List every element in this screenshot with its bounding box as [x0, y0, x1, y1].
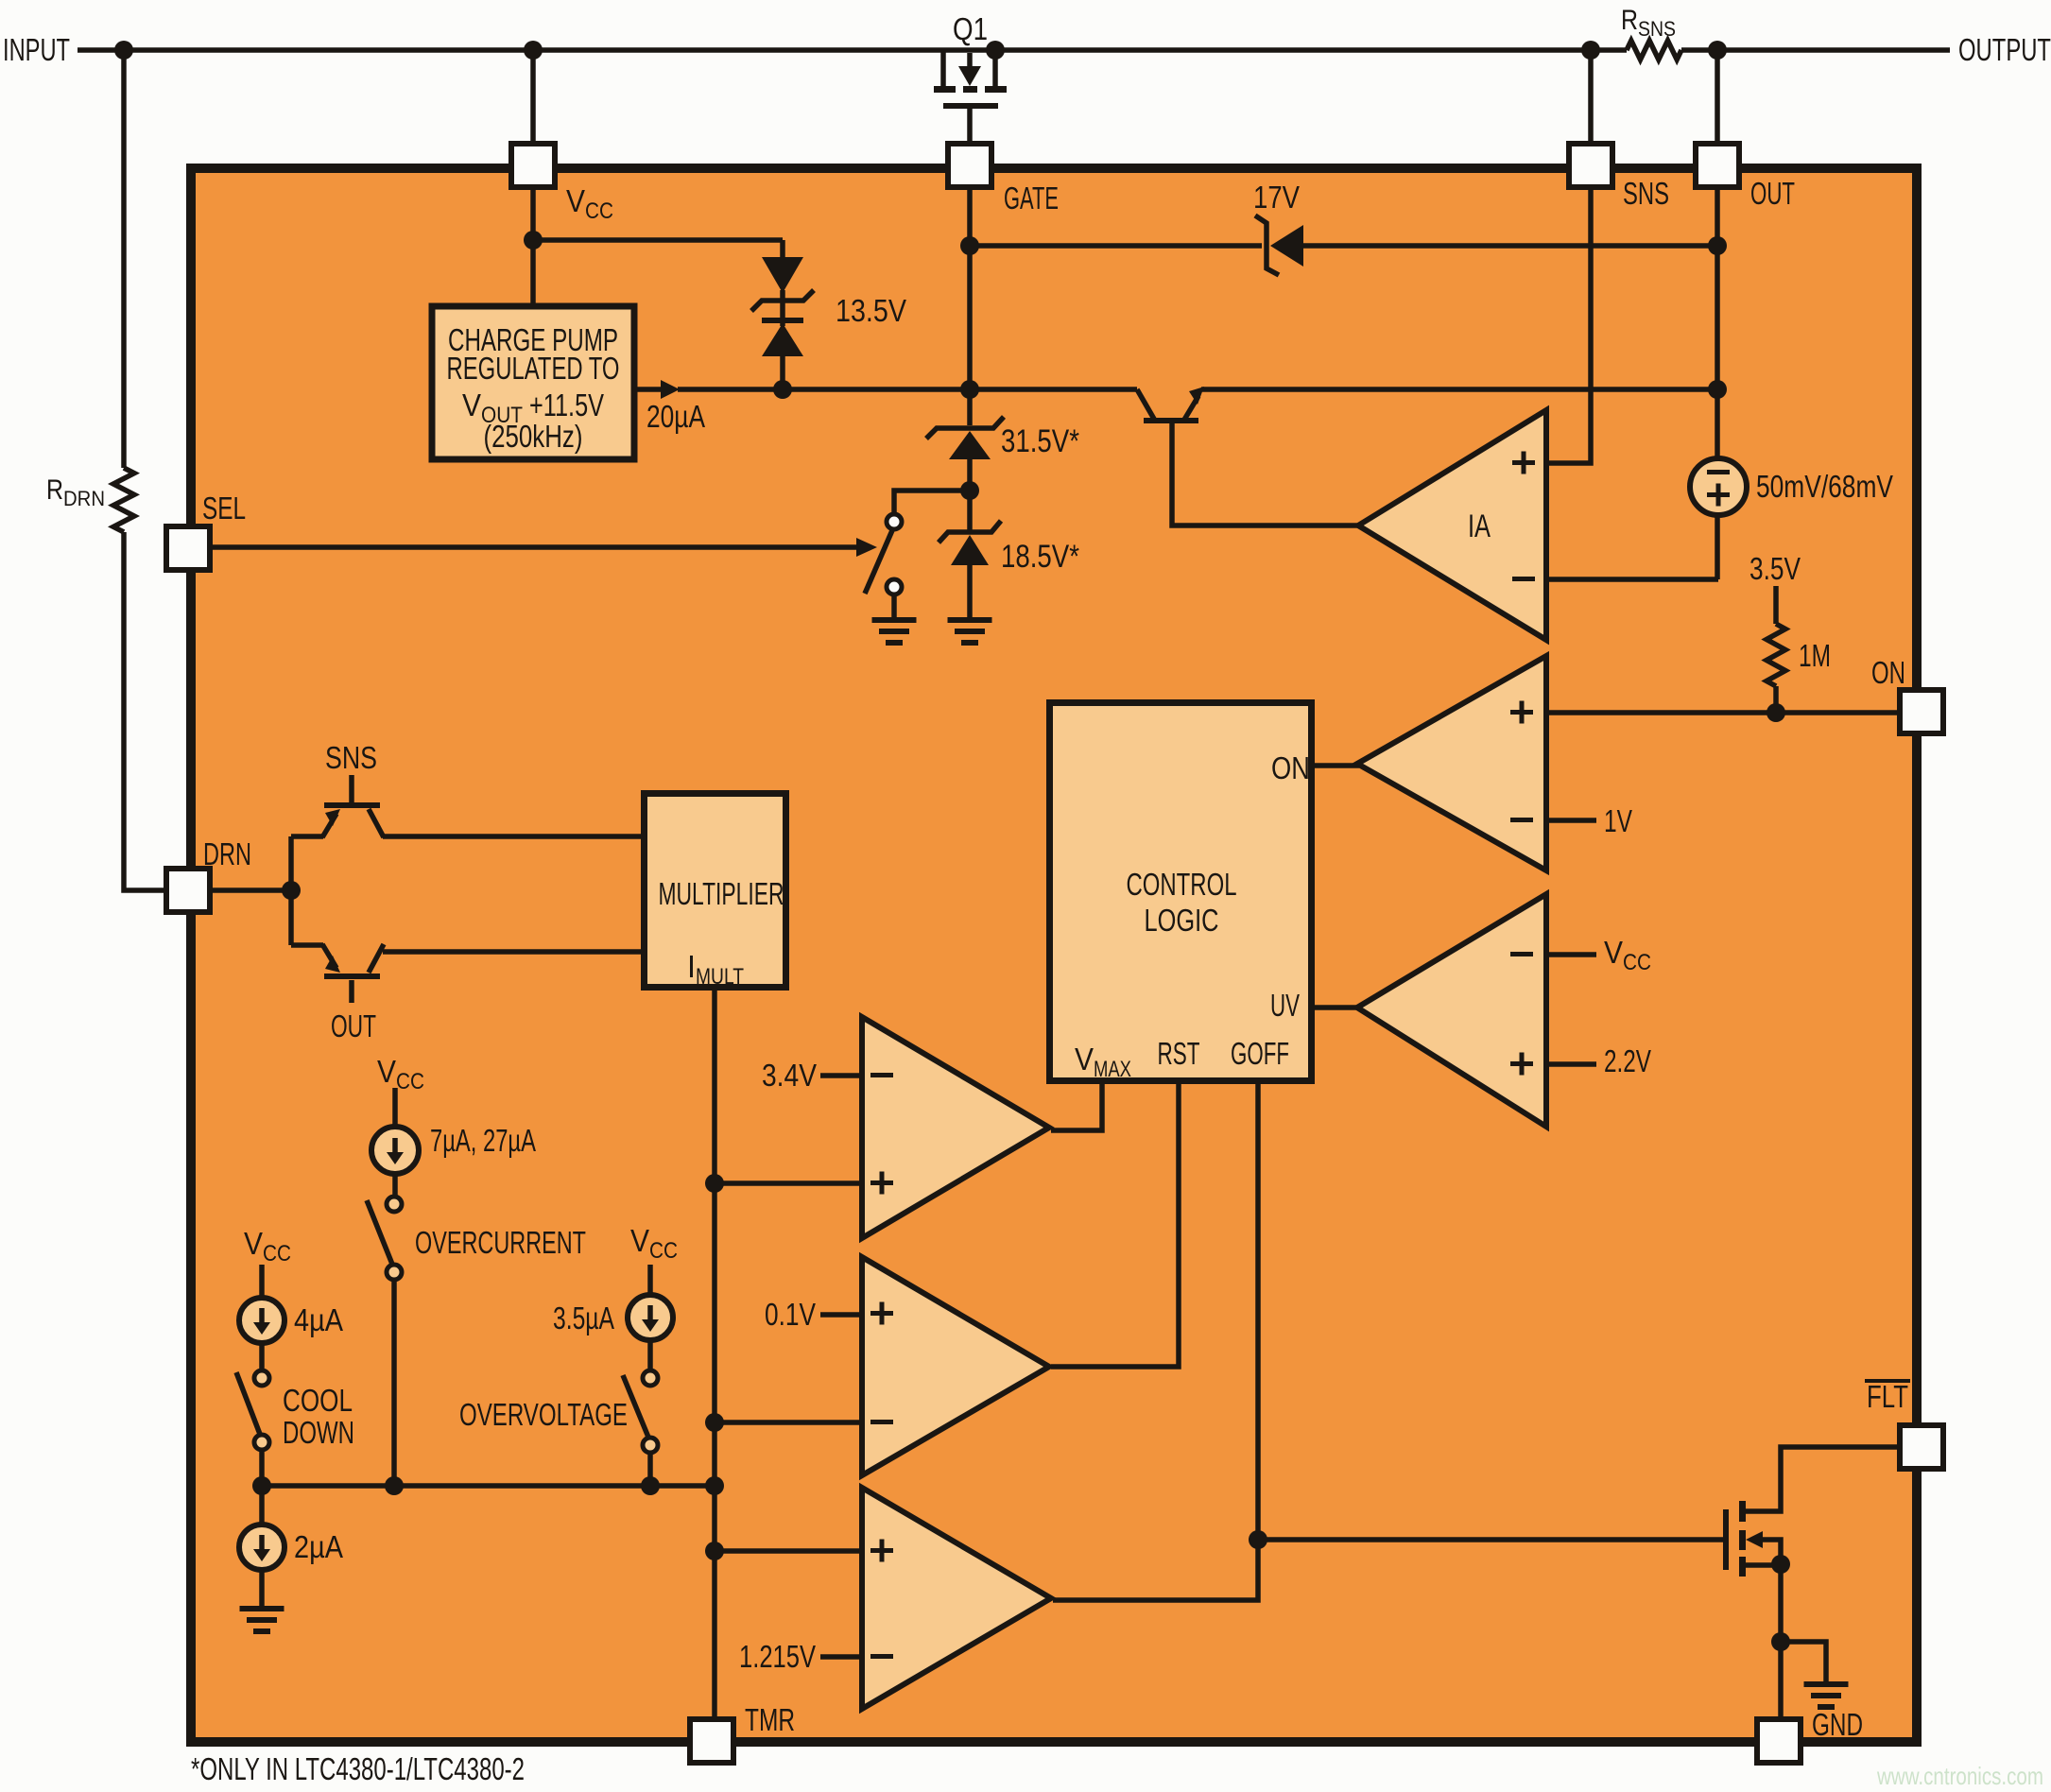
node junction at 756,1252: [705, 1174, 724, 1193]
svg-text:www.cntronics.com: www.cntronics.com: [1876, 1762, 2043, 1790]
svg-text:IA: IA: [1468, 508, 1491, 544]
pin SEL: [166, 526, 210, 570]
svg-text:*ONLY IN LTC4380-1/LTC4380-2: *ONLY IN LTC4380-1/LTC4380-2: [191, 1751, 525, 1786]
zener clamp 13.5V: [762, 257, 803, 293]
charge pump output arrow 20uA: [661, 380, 680, 399]
resistor 1M: [1767, 624, 1785, 686]
node junction at 1026,519: [960, 481, 979, 500]
wire 7uA source branch: [394, 1088, 395, 1486]
node junction at 1817,53: [1708, 41, 1727, 60]
svg-text:1V: 1V: [1604, 803, 1632, 838]
wire timer junction row: [262, 1483, 715, 1489]
svg-text:OUT: OUT: [331, 1008, 376, 1043]
zener 17V: [1255, 215, 1279, 275]
comparator ON: [1357, 656, 1546, 870]
svg-text:31.5V*: 31.5V*: [1001, 423, 1079, 459]
pin SNS: [1569, 144, 1612, 187]
charge pump block: [432, 306, 634, 459]
svg-text:GATE: GATE: [1004, 181, 1059, 215]
pin DRN: [166, 869, 210, 912]
transistor FLT pulldown NMOS: [1723, 1509, 1729, 1570]
wire 3.5V to 1M to ON node: [1773, 586, 1779, 713]
pin TMR: [690, 1719, 733, 1763]
svg-text:2µA: 2µA: [294, 1529, 343, 1564]
wire ON comparator minus 1V: [1546, 818, 1596, 823]
wire FLT pulldown drain to FLT pin: [1746, 1447, 1900, 1511]
node junction at 131,53: [114, 41, 133, 60]
comparator 3.4V Vmax: [862, 1017, 1049, 1238]
ground below 2uA: [240, 1606, 284, 1611]
wire 1.215V comparator inputs: [715, 1551, 862, 1657]
voltage source 50mV/68mV: [1690, 458, 1747, 515]
svg-text:0.1V: 0.1V: [765, 1297, 816, 1332]
svg-text:18.5V*: 18.5V*: [1001, 539, 1079, 575]
node junction at 1817,412: [1708, 380, 1727, 399]
pin GATE: [948, 144, 991, 187]
node junction at 688,1572: [641, 1476, 660, 1495]
pin ON: [1900, 690, 1943, 733]
svg-text:20µA: 20µA: [646, 399, 705, 434]
node junction at 564,53: [524, 41, 543, 60]
wire zener string: [967, 459, 973, 617]
multiplier block: [645, 794, 786, 988]
svg-text:3.5µA: 3.5µA: [553, 1301, 614, 1335]
wire VCC drop: [533, 50, 783, 306]
svg-text:3.4V: 3.4V: [762, 1058, 817, 1093]
wire SNS stub / OUT stub of mirror: [349, 775, 354, 1003]
current source 2uA: [239, 1525, 284, 1570]
node junction at 277,1572: [252, 1476, 271, 1495]
wire switch top contact to zener node: [894, 491, 970, 513]
wire DRN pin to mirror: [210, 887, 291, 893]
wire FLT mosfet body/source: [1746, 1564, 1826, 1719]
IC boundary box LTC4380: [191, 168, 1917, 1742]
svg-text:OUT: OUT: [1750, 176, 1795, 211]
svg-text:1M: 1M: [1799, 638, 1831, 673]
node junction at 756,1641: [705, 1542, 724, 1560]
wire GOFF line: [1053, 1084, 1723, 1600]
pin VCC: [511, 144, 555, 187]
svg-text:TMR: TMR: [745, 1702, 795, 1737]
wire UV comparator plus 2.2V: [1546, 1061, 1596, 1067]
wire top rail INPUT to OUTPUT: [78, 47, 1950, 53]
comparator UV: [1357, 894, 1546, 1127]
pin FLT: [1900, 1425, 1943, 1469]
transistor Q1 external PMOS: [943, 50, 995, 86]
current source 3.5uA: [628, 1295, 673, 1340]
svg-text:CONTROL: CONTROL: [1127, 867, 1237, 902]
wire RST line: [1051, 1084, 1179, 1367]
wire ON comparator plus input / ON pin: [1546, 710, 1900, 715]
node junction at 1026,260: [960, 236, 979, 255]
svg-text:ON: ON: [1871, 655, 1905, 690]
wire 3.4V comparator inputs: [715, 1076, 862, 1183]
wire NPN base to IA output: [1172, 423, 1358, 526]
wire input drop to RDRN and DRN: [124, 50, 167, 890]
svg-text:3.5V: 3.5V: [1749, 551, 1801, 586]
svg-text:13.5V: 13.5V: [836, 293, 906, 328]
node junction at 1331,1629: [1249, 1530, 1267, 1549]
svg-text:FLT: FLT: [1867, 1379, 1908, 1414]
switch overcurrent: [387, 1197, 402, 1212]
wire SNS pin to IA plus input: [1546, 50, 1591, 463]
node junction at 1026,412: [960, 380, 979, 399]
node junction at 1817,260: [1708, 236, 1727, 255]
pin OUT: [1696, 144, 1739, 187]
svg-text:ON: ON: [1271, 750, 1310, 785]
svg-text:OVERCURRENT: OVERCURRENT: [415, 1225, 586, 1260]
svg-text:INPUT: INPUT: [3, 32, 70, 67]
wire VMAX line: [1051, 1084, 1102, 1130]
node junction at 828,412: [773, 380, 792, 399]
wire ON comparator output: [1315, 763, 1359, 768]
svg-text:(250kHz): (250kHz): [484, 419, 583, 454]
transistor DRN mirror upper PNP (SNS): [324, 802, 380, 808]
svg-text:SEL: SEL: [202, 491, 246, 526]
zener 18.5V: [939, 521, 1001, 543]
svg-text:REGULATED TO: REGULATED TO: [447, 351, 620, 386]
node junction at 417,1572: [385, 1476, 404, 1495]
ground below SEL switch: [872, 617, 917, 623]
node junction at 756,1505: [705, 1413, 724, 1432]
wire DRN mirror branches: [291, 836, 323, 945]
ground at FLT source: [1804, 1681, 1849, 1687]
wire TMR vertical: [712, 991, 717, 1719]
svg-text:UV: UV: [1270, 988, 1300, 1023]
node junction at 1683,53: [1581, 41, 1600, 60]
svg-text:RST: RST: [1158, 1036, 1200, 1071]
node junction at 308,942: [282, 881, 301, 900]
wire UV comparator minus VCC: [1546, 952, 1596, 957]
wire mirror collectors to multiplier: [383, 836, 644, 952]
op-amp IA current sense amp: [1358, 410, 1546, 640]
comparator 0.1V RST: [862, 1257, 1049, 1475]
svg-text:SNS: SNS: [325, 740, 377, 775]
switch overvoltage: [643, 1370, 658, 1386]
SEL select switch: [856, 538, 877, 557]
wire 0.1V comparator inputs: [715, 1315, 862, 1422]
svg-text:DOWN: DOWN: [283, 1415, 354, 1450]
wire 20uA rail: [637, 387, 1717, 392]
svg-text:DRN: DRN: [203, 836, 251, 871]
wire GATE vertical: [967, 109, 973, 425]
resistor RSNS: [1627, 41, 1681, 60]
node junction at 1053,53: [986, 41, 1005, 60]
control logic block: [1050, 703, 1312, 1081]
transistor gate clamp NPN: [1137, 389, 1155, 421]
svg-text:OVERVOLTAGE: OVERVOLTAGE: [459, 1397, 628, 1432]
svg-text:OUTPUT: OUTPUT: [1958, 32, 2051, 67]
ground below 18.5V zener: [948, 617, 992, 623]
svg-text:LOGIC: LOGIC: [1145, 903, 1219, 938]
node junction at 1884,1655: [1771, 1555, 1790, 1574]
wire UV comparator output: [1315, 1005, 1359, 1010]
wire 3.5uA overvoltage branch: [647, 1265, 653, 1486]
pin GND: [1757, 1719, 1801, 1763]
wire IA minus input: [1546, 577, 1718, 582]
svg-text:GND: GND: [1812, 1707, 1863, 1742]
zener 31.5V: [926, 417, 1004, 439]
svg-text:SNS: SNS: [1623, 176, 1669, 211]
svg-text:1.215V: 1.215V: [739, 1639, 816, 1674]
svg-text:GOFF: GOFF: [1231, 1036, 1289, 1071]
current source 4uA: [239, 1298, 284, 1343]
resistor RDRN: [113, 468, 134, 532]
svg-text:MULTIPLIER: MULTIPLIER: [659, 876, 784, 911]
wire OUT pin vertical: [1715, 50, 1720, 579]
node junction at 564,254: [524, 231, 543, 250]
node junction at 1884,1737: [1771, 1632, 1790, 1651]
svg-text:7µA, 27µA: 7µA, 27µA: [430, 1123, 536, 1158]
wire 4uA cool down branch: [259, 1265, 265, 1606]
svg-text:Q1: Q1: [953, 11, 988, 46]
wire 17V clamp: [970, 243, 1717, 249]
wire switch bottom to ground: [891, 595, 897, 617]
wire SEL to switch: [210, 544, 858, 550]
node junction at 756,1572: [705, 1476, 724, 1495]
node junction at 1879,754: [1767, 703, 1785, 722]
current source 7uA 27uA: [371, 1127, 419, 1174]
svg-text:2.2V: 2.2V: [1604, 1043, 1651, 1078]
svg-text:4µA: 4µA: [294, 1302, 343, 1337]
transistor DRN mirror lower PNP (OUT): [324, 974, 380, 979]
switch cool down: [254, 1370, 269, 1386]
svg-text:50mV/68mV: 50mV/68mV: [1756, 469, 1893, 504]
svg-text:COOL: COOL: [283, 1383, 353, 1418]
comparator 1.215V TMR: [862, 1488, 1051, 1709]
svg-text:17V: 17V: [1253, 180, 1300, 215]
